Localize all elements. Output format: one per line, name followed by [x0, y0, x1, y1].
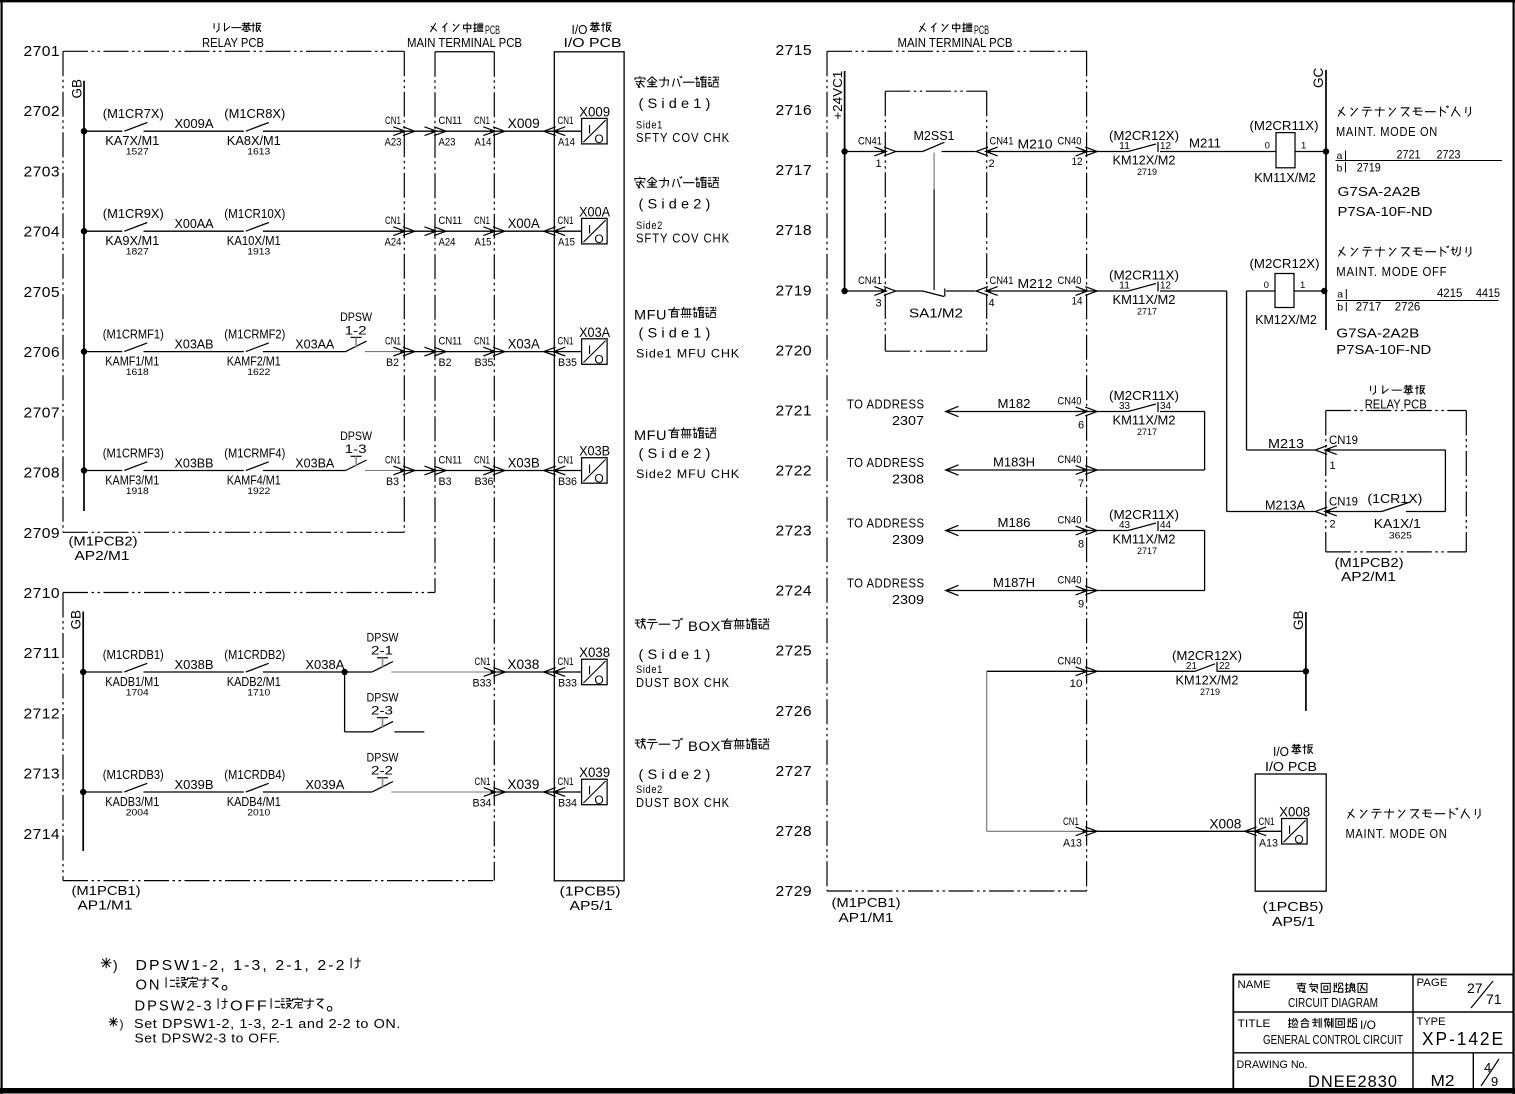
svg-text:1622: 1622 [247, 367, 270, 378]
svg-text:CN1: CN1 [558, 115, 574, 127]
wire to connector [263, 130, 404, 132]
wire node X039A [263, 777, 372, 792]
svg-text:X038B: X038B [175, 657, 214, 672]
svg-text:X03AA: X03AA [295, 337, 334, 352]
wire to I/O PCB [495, 671, 555, 673]
svg-text:A15: A15 [475, 237, 492, 249]
wire node X03AB [144, 337, 244, 352]
I/O point X038 [554, 645, 610, 687]
connector CN1/B35 into I/O PCB [544, 336, 577, 370]
connector CN40/7 [1058, 454, 1098, 490]
wire to contact [1087, 290, 1128, 292]
svg-text:GB: GB [1291, 610, 1306, 630]
annotation: relay part number G7SA [1338, 184, 1433, 219]
svg-text:KM11X/M2: KM11X/M2 [1113, 413, 1176, 428]
svg-text:TYPE: TYPE [1417, 1016, 1446, 1028]
svg-text:(M2CR12X): (M2CR12X) [1172, 648, 1242, 663]
svg-text:3: 3 [876, 298, 882, 310]
svg-text:2729: 2729 [776, 883, 813, 900]
connector CN1/A23 [385, 115, 415, 149]
svg-text:2004: 2004 [126, 808, 149, 819]
connector CN1/A15 into I/O PCB [544, 215, 575, 249]
svg-text:CN40: CN40 [1058, 454, 1082, 466]
svg-text:2712: 2712 [24, 705, 61, 722]
svg-text:(Side2): (Side2) [639, 445, 715, 461]
svg-text:2725: 2725 [776, 643, 813, 660]
bus tap wire [80, 789, 122, 795]
svg-text:M2SS1: M2SS1 [914, 128, 955, 143]
svg-text:KM11X/M2: KM11X/M2 [1254, 170, 1316, 185]
svg-text:2: 2 [1330, 519, 1336, 531]
node X039 [507, 777, 539, 792]
svg-text:(M1CR10X): (M1CR10X) [224, 206, 285, 221]
svg-text:(M1CRDB2): (M1CRDB2) [224, 647, 285, 662]
connector CN1/B3 [385, 455, 415, 489]
mechanical linkage M2SS1-SA1 [933, 153, 935, 291]
svg-text:AP5/1: AP5/1 [1272, 914, 1315, 929]
svg-text:+24VC1: +24VC1 [831, 71, 845, 120]
svg-text:CN1: CN1 [558, 656, 574, 668]
svg-text:2726: 2726 [776, 703, 813, 720]
svg-text:0: 0 [1264, 280, 1269, 291]
svg-text:2705: 2705 [24, 284, 61, 301]
svg-text:b: b [1337, 302, 1343, 314]
svg-text:CN41: CN41 [858, 275, 882, 287]
wire M211 [1160, 136, 1276, 152]
svg-text:X038: X038 [579, 645, 610, 660]
node X03A [508, 337, 540, 352]
svg-text:CN1: CN1 [558, 455, 574, 467]
I/O point X03A [554, 325, 610, 367]
relay contact KADB3/M1 (M1CRDB3) [103, 767, 164, 819]
svg-text:I: I [588, 223, 591, 237]
svg-text:X009: X009 [579, 104, 610, 119]
relay KA1X/1 (1CR1X) contact [1326, 450, 1445, 542]
svg-text:1: 1 [1330, 460, 1336, 472]
branch rung 2712 - DPSW 2-3 [345, 672, 372, 732]
+24VC1 bus [831, 71, 845, 294]
svg-text:PAGE: PAGE [1417, 977, 1448, 989]
relay PCB header (left) [202, 23, 264, 50]
svg-text:2308: 2308 [892, 473, 924, 487]
svg-text:2724: 2724 [776, 583, 813, 600]
svg-text:DPSW: DPSW [340, 312, 372, 324]
connector CN11/A23 [425, 115, 463, 149]
svg-text:A23: A23 [439, 137, 456, 149]
svg-text:(1CR1X): (1CR1X) [1367, 491, 1422, 506]
svg-text:A23: A23 [385, 137, 402, 149]
svg-text:X03B: X03B [579, 444, 610, 459]
wire elbow 2721 to 2722 [1160, 412, 1205, 471]
svg-text:2718: 2718 [776, 222, 813, 239]
relay contact KADB2/M1 (M1CRDB2) [224, 647, 285, 699]
svg-text:1618: 1618 [126, 367, 149, 378]
svg-text:X038: X038 [507, 657, 539, 672]
svg-text:B36: B36 [558, 476, 577, 488]
signal arrow M183H to address 2308 [847, 455, 1087, 487]
I/O PCB header (left) [564, 22, 622, 50]
node X038 [507, 657, 539, 672]
svg-text:2307: 2307 [892, 414, 924, 428]
svg-text:CN41: CN41 [990, 275, 1014, 287]
svg-text:(Side2): (Side2) [639, 766, 715, 782]
svg-text:(M1CR7X): (M1CR7X) [103, 106, 164, 121]
svg-text:SFTY COV CHK: SFTY COV CHK [636, 232, 730, 246]
svg-text:NAME: NAME [1238, 979, 1271, 991]
annotation: MFU check side1 [634, 307, 740, 361]
connector CN1/B35 [474, 336, 505, 370]
open stub after DPSW 2-3 [394, 731, 424, 733]
svg-text:1918: 1918 [126, 486, 149, 497]
svg-text:GENERAL CONTROL CIRCUIT: GENERAL CONTROL CIRCUIT [1263, 1033, 1403, 1047]
GB bus (upper left) [70, 79, 85, 511]
svg-text:CN1: CN1 [474, 336, 490, 348]
svg-text:2714: 2714 [24, 826, 61, 843]
relay contact KAMF1/M1 (M1CRMF1) [103, 326, 164, 378]
svg-text:I/O PCB: I/O PCB [564, 36, 622, 50]
svg-text:(M1CRDB1): (M1CRDB1) [103, 647, 164, 662]
wire into main terminal PCB [404, 230, 554, 232]
connector CN40/10 [1058, 655, 1098, 690]
relay contact KM11X/M2 (M2CR11X) 11-12 [1109, 268, 1179, 318]
relay contact KAMF2/M1 (M1CRMF2) [224, 326, 285, 378]
note: English line 1 [109, 1017, 401, 1031]
svg-text:): ) [120, 1017, 124, 1031]
note: DPSW setting (Japanese line 1) [101, 957, 360, 974]
svg-text:Side1: Side1 [636, 664, 663, 676]
bus tap wire [81, 348, 123, 354]
bus tap wire [80, 669, 122, 675]
svg-text:XP-142E: XP-142E [1422, 1029, 1505, 1049]
svg-text:B2: B2 [386, 357, 399, 369]
svg-text:X008: X008 [1279, 805, 1310, 820]
PCB board M1PCB1/AP1 dashed box (rows 2710-2714) [63, 593, 494, 881]
svg-text:8: 8 [1078, 539, 1084, 551]
connector CN1/B36 into I/O PCB [544, 455, 577, 489]
svg-text:CN11: CN11 [439, 215, 463, 227]
rung 2728 wire X008 [987, 830, 1087, 832]
I/O PCB label 1PCB5 [560, 884, 621, 914]
connector CN1/A15 [474, 215, 505, 249]
svg-text:(M1CR9X): (M1CR9X) [103, 206, 164, 221]
DIP switch DPSW 2-2 [367, 752, 399, 792]
svg-text:(M2CR11X): (M2CR11X) [1109, 507, 1179, 522]
svg-text:OFF: OFF [230, 998, 269, 1015]
annotation: MFU check side2 [634, 428, 740, 482]
svg-text:X03AB: X03AB [175, 337, 214, 352]
svg-text:X008: X008 [1209, 816, 1241, 831]
svg-text:Side2: Side2 [636, 220, 663, 232]
relay contact KA9X/M1 (M1CR9X) [103, 206, 164, 258]
svg-text:CN1: CN1 [558, 336, 574, 348]
svg-text:2: 2 [989, 158, 995, 170]
wire from switch to connector [391, 671, 494, 673]
relay contact KA7X/M1 (M1CR7X) [103, 106, 164, 158]
svg-text:KA1X/1: KA1X/1 [1374, 516, 1421, 531]
svg-text:2723: 2723 [1437, 148, 1461, 162]
relay contact KA8X/M1 (M1CR8X) [224, 106, 285, 158]
svg-text:O: O [594, 132, 603, 146]
svg-text:X00A: X00A [508, 216, 540, 231]
svg-text:M213: M213 [1268, 436, 1304, 451]
connector CN1/B33 into I/O PCB [544, 656, 577, 690]
svg-text:(M2CR12X): (M2CR12X) [1109, 128, 1179, 143]
svg-text:1704: 1704 [126, 688, 149, 699]
svg-text:SA1/M2: SA1/M2 [909, 306, 963, 321]
svg-text:2703: 2703 [24, 163, 61, 180]
svg-text:1-2: 1-2 [345, 325, 367, 337]
selector switch M2SS1 [896, 128, 975, 152]
svg-text:CN11: CN11 [439, 336, 463, 348]
svg-text:(M1PCB1): (M1PCB1) [72, 883, 141, 898]
svg-text:M186: M186 [998, 515, 1031, 530]
svg-text:CN40: CN40 [1058, 515, 1082, 527]
svg-text:A14: A14 [558, 137, 575, 149]
svg-text:2706: 2706 [24, 344, 61, 361]
svg-text:KM11X/M2: KM11X/M2 [1113, 292, 1176, 307]
title block TYPE cell [1417, 1016, 1506, 1049]
relay coil KM11X/M2 (M2CR11X) [1250, 118, 1319, 185]
svg-text:CN40: CN40 [1058, 396, 1082, 408]
wire from switch to connector [365, 351, 404, 353]
svg-text:(M1CRMF4): (M1CRMF4) [224, 445, 285, 460]
svg-text:M2: M2 [1431, 1073, 1455, 1090]
relay PCB header (right) [1365, 385, 1427, 411]
svg-text:(Side2): (Side2) [639, 196, 715, 212]
svg-text:AP1/M1: AP1/M1 [839, 910, 894, 925]
relay contact KM11X/M2 (M2CR11X) 43-44 [1087, 507, 1179, 557]
PCB board M1PCB2/AP2 dashed box (rows 2701-2709) [63, 51, 404, 532]
connector CN11/B2 [425, 336, 463, 370]
svg-text:CN1: CN1 [385, 336, 401, 348]
svg-text:2719: 2719 [1357, 161, 1381, 175]
svg-text:(M2CR12X): (M2CR12X) [1250, 256, 1320, 271]
svg-text:AP2/M1: AP2/M1 [1341, 569, 1396, 584]
svg-text:Side1 MFU CHK: Side1 MFU CHK [636, 347, 740, 361]
relay contact KA10X/M1 (M1CR10X) [224, 206, 285, 258]
svg-text:X039: X039 [579, 765, 610, 780]
note: English line 2 [135, 1032, 281, 1046]
contact cross reference table (KM11X) [1336, 148, 1503, 175]
title block NAME cell [1238, 979, 1379, 1010]
svg-text:CN1: CN1 [1063, 816, 1079, 828]
svg-text:27: 27 [1467, 980, 1483, 996]
svg-text:(M1CRDB3): (M1CRDB3) [103, 767, 164, 782]
svg-text:DPSW: DPSW [340, 431, 372, 443]
wire elbow down to M213A [1160, 291, 1227, 512]
connector CN1/B34 into I/O PCB [544, 776, 577, 810]
wire node X03AA [263, 337, 346, 352]
svg-text:2722: 2722 [776, 462, 813, 479]
svg-text:B34: B34 [558, 798, 577, 810]
svg-text:2717: 2717 [1137, 546, 1157, 557]
svg-text:TO ADDRESS: TO ADDRESS [847, 398, 925, 412]
DIP switch DPSW 2-3 [367, 692, 399, 732]
wire into main terminal PCB [404, 130, 554, 132]
svg-text:CN1: CN1 [385, 215, 401, 227]
rung 2719 wire from +24VC1 bus [841, 288, 885, 294]
svg-text:A24: A24 [439, 237, 456, 249]
svg-text:2716: 2716 [776, 102, 813, 119]
switch sub-box (M2SS1/SA1) [885, 91, 986, 351]
svg-text:DPSW2-3: DPSW2-3 [135, 998, 214, 1015]
svg-text:B36: B36 [475, 476, 494, 488]
svg-text:M187H: M187H [993, 575, 1035, 590]
svg-text:1827: 1827 [126, 247, 149, 258]
svg-text:B3: B3 [439, 476, 452, 488]
svg-text:I: I [1288, 823, 1291, 837]
connector CN1/B34 [473, 776, 506, 810]
svg-text:B33: B33 [473, 678, 492, 690]
wire M210 [987, 137, 1087, 152]
svg-text:TO ADDRESS: TO ADDRESS [847, 456, 925, 470]
svg-text:I: I [588, 784, 591, 798]
connector CN1/A13 [1063, 816, 1097, 850]
note: Japanese line 2 [136, 977, 227, 994]
connector CN41/2 [976, 136, 1013, 171]
svg-text:DUST BOX CHK: DUST BOX CHK [636, 796, 730, 810]
svg-text:2711: 2711 [24, 645, 61, 662]
connector CN1/A14 [474, 115, 505, 149]
svg-text:(M1CRMF1): (M1CRMF1) [103, 326, 164, 341]
wire to connector [263, 230, 404, 232]
svg-text:X03BA: X03BA [295, 456, 334, 471]
connector CN41/3 [858, 275, 896, 310]
relay contact KM12X/M2 (M2CR12X) 11-12 [1109, 128, 1179, 178]
note: Japanese line 3 [135, 998, 332, 1015]
svg-text:2717: 2717 [776, 162, 813, 179]
svg-text:AP1/M1: AP1/M1 [78, 898, 133, 913]
svg-text:(Side1): (Side1) [639, 325, 715, 341]
svg-text:9: 9 [1078, 599, 1084, 611]
svg-text:AP5/1: AP5/1 [570, 898, 613, 913]
svg-text:G7SA-2A2B: G7SA-2A2B [1338, 184, 1421, 199]
svg-text:2728: 2728 [776, 823, 813, 840]
wire from switch to connector [365, 470, 404, 472]
svg-text:(M1CRMF3): (M1CRMF3) [103, 445, 164, 460]
svg-text:2719: 2719 [1200, 687, 1220, 698]
svg-text:2-2: 2-2 [371, 766, 393, 778]
wire node X038B [144, 657, 244, 672]
annotation: dust box check side1 [635, 618, 769, 690]
svg-text:O: O [594, 353, 603, 367]
svg-text:P7SA-10F-ND: P7SA-10F-ND [1338, 204, 1433, 219]
svg-text:X03BB: X03BB [175, 456, 214, 471]
I/O point X009 [554, 104, 610, 146]
svg-text:TO ADDRESS: TO ADDRESS [847, 517, 925, 531]
svg-text:7: 7 [1078, 478, 1084, 490]
wire into main terminal PCB [404, 351, 554, 353]
svg-text:CN40: CN40 [1058, 655, 1082, 667]
GC bus [1311, 67, 1326, 330]
svg-text:6: 6 [1078, 420, 1084, 432]
svg-text:9: 9 [1491, 1074, 1498, 1089]
svg-text:(M1CR8X): (M1CR8X) [224, 106, 285, 121]
svg-text:DPSW: DPSW [367, 632, 399, 644]
main terminal PCB header (right) [898, 23, 1013, 50]
svg-text:MAIN TERMINAL PCB: MAIN TERMINAL PCB [898, 36, 1013, 50]
wire node X03BB [144, 456, 244, 471]
svg-text:CN1: CN1 [475, 656, 491, 668]
annotation: safety cover check side2 [635, 177, 730, 246]
svg-text:2721: 2721 [1397, 148, 1421, 162]
svg-text:CN40: CN40 [1058, 136, 1082, 148]
svg-text:B33: B33 [558, 678, 577, 690]
svg-text:1-3: 1-3 [345, 444, 367, 456]
main terminal PCB header (left) [407, 23, 522, 50]
svg-text:M210: M210 [1018, 137, 1053, 152]
svg-text:BOX: BOX [688, 739, 721, 754]
svg-text:2719: 2719 [1137, 167, 1157, 178]
svg-text:GC: GC [1311, 67, 1326, 88]
svg-text:I: I [588, 462, 591, 476]
svg-text:Side1: Side1 [636, 120, 663, 132]
svg-text:Side2: Side2 [636, 784, 663, 796]
svg-text:2717: 2717 [1356, 300, 1382, 314]
svg-text:I/O: I/O [1273, 745, 1289, 759]
svg-text:(Side1): (Side1) [639, 95, 715, 111]
svg-text:2309: 2309 [892, 533, 924, 547]
bus tap wire [81, 128, 123, 134]
node X00A [508, 216, 540, 231]
wire to contact 2725 [1087, 670, 1195, 672]
main terminal PCB box (left) [435, 52, 494, 881]
svg-text:2721: 2721 [776, 402, 813, 419]
I/O point X039 [554, 765, 610, 807]
main terminal PCB box (right) [827, 51, 1087, 891]
svg-text:KM12X/M2: KM12X/M2 [1113, 153, 1176, 168]
wire 2722 return [1087, 469, 1205, 471]
svg-text:3625: 3625 [1389, 531, 1412, 542]
annotation: relay part number G7SA (2) [1336, 326, 1431, 358]
svg-text:G7SA-2A2B: G7SA-2A2B [1336, 326, 1419, 341]
svg-text:2707: 2707 [24, 404, 61, 421]
svg-text:DRAWING No.: DRAWING No. [1237, 1059, 1308, 1071]
svg-text:2723: 2723 [776, 523, 813, 540]
wire to GB bus [1217, 668, 1309, 674]
svg-text:Side2 MFU CHK: Side2 MFU CHK [636, 467, 740, 481]
I/O PCB 1PCB5 label (right) [1263, 899, 1324, 929]
svg-text:2717: 2717 [1137, 307, 1157, 318]
svg-text:2727: 2727 [776, 763, 813, 780]
rung 2717 wire from +24VC1 bus [841, 148, 885, 154]
annotation: safety cover check side1 [635, 76, 730, 145]
svg-text:MFU: MFU [634, 428, 667, 443]
svg-text:RELAY PCB: RELAY PCB [1365, 398, 1427, 412]
wire M213 label [1268, 436, 1304, 451]
connector CN19/1 (M213) [1315, 433, 1358, 472]
title block DRAWING cell [1237, 1059, 1500, 1091]
svg-text:2708: 2708 [24, 465, 61, 482]
relay contact KADB1/M1 (M1CRDB1) [103, 647, 164, 699]
svg-text:Set DPSW1-2, 1-3, 2-1 and 2-2: Set DPSW1-2, 1-3, 2-1 and 2-2 to ON. [134, 1017, 401, 1031]
svg-text:CN41: CN41 [990, 136, 1014, 148]
svg-text:O: O [594, 673, 603, 687]
wire M213A from 2719 elbow [1227, 498, 1316, 513]
svg-text:(Side1): (Side1) [639, 646, 715, 662]
svg-text:X039A: X039A [305, 777, 344, 792]
I/O point X00A [554, 204, 610, 246]
svg-text:a: a [1337, 289, 1343, 301]
svg-text:A13: A13 [1063, 837, 1082, 849]
svg-text:2704: 2704 [24, 224, 61, 241]
I/O PCB header (right) [1265, 744, 1317, 774]
svg-text:MAINT. MODE ON: MAINT. MODE ON [1346, 827, 1448, 841]
svg-text:I: I [588, 123, 591, 137]
wire from KM12X coil to M213 [1247, 291, 1316, 450]
connector CN1/A14 into I/O PCB [544, 115, 575, 149]
svg-text:CN1: CN1 [474, 215, 490, 227]
